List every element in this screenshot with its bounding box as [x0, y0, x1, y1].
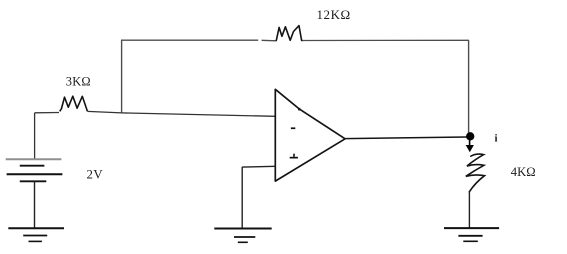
ground: right (below R3) [444, 228, 499, 241]
label: 3KΩ value [66, 74, 91, 88]
label: current i [495, 132, 498, 144]
resistor R1 3KΩ (input zigzag) [60, 96, 88, 111]
wire: non-inverting input horizontal [242, 165, 275, 168]
wire: battery top lead horizontal [35, 112, 59, 114]
svg-text:i: i [495, 132, 498, 144]
wire: op-amp output to node [345, 137, 466, 139]
node: output junction dot [466, 132, 474, 140]
label: 2V value [87, 167, 104, 181]
label: 12KΩ value [317, 7, 351, 22]
current arrow i (downward) [466, 140, 474, 152]
op-amp U1 triangle [275, 89, 345, 181]
svg-text:3KΩ: 3KΩ [66, 74, 91, 88]
battery V1: second plate (short) [20, 165, 45, 167]
op-amp U1 non-inverting input "+" mark [290, 154, 298, 159]
svg-text:4KΩ: 4KΩ [511, 165, 536, 179]
wire: input wire from R1 through junction to op-amp inverting input [87, 111, 275, 116]
ground: middle (op-amp non-inverting input) [214, 229, 271, 243]
wire: feedback right vertical (top rail down to output node) [468, 40, 470, 135]
battery V1: fourth plate (short) [20, 180, 47, 182]
battery V1: third plate (long) [7, 173, 63, 175]
battery V1 2V: top plate (gray long) [6, 158, 62, 160]
resistor R3 4KΩ (vertical scribble) [466, 154, 485, 192]
ground: left (below battery) [8, 228, 64, 241]
label: 4KΩ value [511, 165, 536, 179]
svg-text:2V: 2V [87, 167, 104, 181]
wire: R3 bottom lead to ground [468, 192, 470, 228]
wire: battery positive vertical lead [34, 113, 36, 159]
wire: top rail left segment [121, 39, 276, 42]
wire: battery negative vertical lead to ground [34, 181, 36, 228]
svg-text:12KΩ: 12KΩ [317, 7, 351, 22]
wire: non-inverting input vertical down to ground [241, 167, 243, 229]
wire: top rail right segment [303, 39, 469, 41]
resistor R2 12KΩ (feedback zigzag) [276, 26, 302, 41]
op-amp U1 inverting input "-" mark [291, 127, 295, 129]
wire: feedback top-left vertical (junction to top rail) [121, 40, 123, 113]
